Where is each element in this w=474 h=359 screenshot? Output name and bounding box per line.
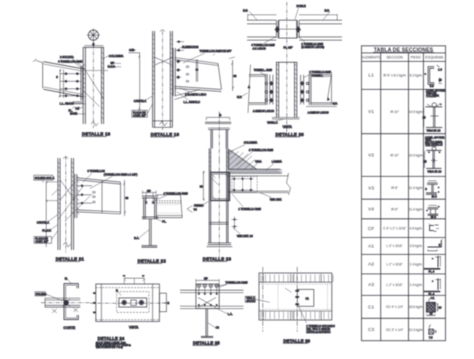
top beam left segment — [247, 20, 276, 40]
svg-text:PL. 3/8": PL. 3/8" — [284, 46, 293, 50]
svg-text:VER DETALLE: VER DETALLE — [425, 143, 443, 147]
boxed label SOLERA — [34, 175, 53, 180]
svg-text:4 TORNILLOS A325: 4 TORNILLOS A325 — [251, 43, 275, 47]
left beam horizontal — [249, 75, 265, 105]
svg-text:N.S.P.: N.S.P. — [108, 65, 116, 69]
column flange hatch — [276, 64, 278, 116]
svg-text:2 SOLDAD.: 2 SOLDAD. — [60, 55, 74, 59]
beam top edge — [44, 62, 83, 69]
top bolts circles — [197, 284, 200, 287]
splice line — [209, 222, 228, 224]
post bottom flange — [201, 336, 213, 337]
svg-text:SOLERA: SOLERA — [36, 292, 47, 296]
top dim line — [248, 14, 338, 16]
outer rect — [259, 273, 332, 320]
svg-text:VIGA IR 10: VIGA IR 10 — [427, 129, 441, 133]
svg-text:14.9 kg/m: 14.9 kg/m — [409, 110, 423, 114]
post below — [149, 219, 151, 246]
svg-text:(A AMBOS LADOS): (A AMBOS LADOS) — [301, 45, 324, 49]
svg-text:C 4" x 2" x 3/16": C 4" x 2" x 3/16" — [383, 227, 406, 231]
svg-text:A AMBOS LADOS: A AMBOS LADOS — [253, 109, 274, 113]
svg-text:11.4 kg/m: 11.4 kg/m — [409, 186, 423, 190]
svg-text:VIGA IR 10: VIGA IR 10 — [427, 169, 441, 173]
svg-text:DOBLE: DOBLE — [297, 4, 306, 8]
svg-text:COLUMNA: COLUMNA — [109, 54, 124, 58]
svg-text:DETALLE 20: DETALLE 20 — [276, 132, 305, 137]
beam bottom edge — [175, 86, 222, 91]
svg-text:10: 10 — [438, 306, 442, 310]
svg-text:CARTELA: CARTELA — [37, 221, 50, 225]
svg-text:L 3" x 3/16": L 3" x 3/16" — [387, 244, 403, 248]
svg-text:PLACA: PLACA — [42, 229, 51, 233]
beam bottom edge — [44, 89, 83, 97]
right end dim — [232, 60, 234, 91]
beam right end cut — [218, 64, 222, 90]
bottom band — [259, 310, 332, 312]
inner dashed rect — [117, 292, 149, 313]
band sub-rect separators — [263, 274, 321, 320]
svg-text:DETALLE 22: DETALLE 22 — [138, 258, 167, 263]
left dim — [128, 53, 140, 110]
svg-text:CF: CF — [368, 226, 374, 232]
V3 I-beam sketch — [425, 181, 439, 199]
svg-text:V4: V4 — [194, 208, 198, 212]
svg-text:30: 30 — [200, 185, 203, 189]
post below — [206, 309, 208, 337]
svg-text:C3: C3 — [368, 327, 374, 333]
bottom note with leader — [299, 306, 307, 323]
vertical gridlines — [263, 267, 297, 332]
right end plate — [309, 74, 311, 105]
bolt centerline crosses — [232, 177, 254, 192]
beam under deck — [228, 176, 288, 193]
dashed box around bolts — [232, 177, 257, 193]
svg-text:OC 3" x 1/4": OC 3" x 1/4" — [386, 328, 404, 332]
svg-text:DETALLE 19: DETALLE 19 — [151, 132, 180, 137]
svg-text:8.2 kg/m: 8.2 kg/m — [410, 73, 423, 77]
gusset lines below beam — [175, 90, 201, 100]
splice bolts dark — [275, 26, 301, 33]
inner horizontal dashed lines — [96, 288, 160, 320]
svg-text:1 TORNILLO A325: 1 TORNILLO A325 — [309, 70, 331, 74]
svg-text:TORNILLOS A325: TORNILLOS A325 — [225, 280, 248, 284]
bottom plate — [73, 102, 84, 104]
beam to right top flange dashed — [156, 201, 181, 203]
grid bubble compass circle — [88, 30, 98, 40]
column top break — [160, 30, 165, 32]
svg-text:DETALLE 18: DETALLE 18 — [82, 132, 111, 137]
svg-text:C1: C1 — [431, 296, 435, 300]
svg-text:VARILLA: VARILLA — [267, 121, 278, 125]
inner dotted verticals — [278, 284, 328, 309]
column bottom break — [91, 121, 98, 126]
svg-text:PESO: PESO — [411, 56, 421, 60]
beam top edge — [175, 58, 219, 66]
beam body lines — [156, 195, 182, 218]
svg-text:IR 6" x 8.2 kg/m: IR 6" x 8.2 kg/m — [383, 73, 406, 77]
svg-text:V4: V4 — [368, 207, 374, 213]
column flanges — [58, 158, 74, 250]
column centerline dashed — [92, 44, 94, 128]
svg-text:4.6 kg/m: 4.6 kg/m — [410, 227, 423, 231]
svg-text:15: 15 — [439, 78, 443, 82]
beam top inner edge — [44, 64, 83, 71]
channel at column (section) — [211, 172, 230, 200]
wavy dim — [73, 107, 83, 109]
beam inner stiffener vertical — [101, 180, 103, 213]
A3 angle sketch — [424, 278, 441, 296]
svg-text:COLUMNA: COLUMNA — [426, 93, 439, 97]
left cleat bolts dark diamonds — [269, 81, 273, 103]
right cleat bolts dark diamonds — [300, 81, 304, 103]
svg-text:VER DET. 24: VER DET. 24 — [237, 234, 253, 238]
svg-text:N.P.: N.P. — [325, 8, 330, 12]
table row labels column ELEMENTO — [368, 73, 375, 334]
svg-text:2 TORNILLOS A325: 2 TORNILLOS A325 — [249, 148, 274, 152]
A2 angle sketch — [424, 256, 441, 273]
V4 I-beam sketch — [426, 205, 440, 219]
bolts in beam — [233, 178, 252, 191]
svg-text:DETALLE ADJUNTO: DETALLE ADJUNTO — [306, 330, 330, 334]
ESQUEMA sketches — [423, 65, 446, 339]
leader to column — [52, 190, 58, 196]
C1 hatched square sketch — [426, 296, 442, 316]
column centerline — [162, 31, 164, 130]
top dim line — [143, 192, 157, 194]
left end plate — [265, 74, 267, 105]
svg-text:18.6 kg/m: 18.6 kg/m — [409, 305, 423, 309]
svg-text:60: 60 — [233, 74, 236, 78]
svg-text:PL.4: PL.4 — [429, 269, 435, 273]
mid stiffener vertical — [196, 60, 197, 82]
bolt circles with filled diamonds — [122, 300, 126, 304]
C3 box sketch — [429, 325, 437, 340]
svg-text:IR 8: IR 8 — [432, 194, 438, 198]
table outer frame — [362, 46, 446, 341]
svg-text:3.5: 3.5 — [76, 106, 80, 110]
svg-text:2.4 kg/m: 2.4 kg/m — [410, 262, 423, 266]
column base plate — [272, 118, 300, 120]
svg-text:25: 25 — [423, 116, 427, 120]
svg-text:10.3 kg/m: 10.3 kg/m — [409, 328, 423, 332]
svg-text:TORNILL.: TORNILL. — [312, 74, 324, 78]
post base — [142, 246, 158, 248]
left cleat — [270, 75, 273, 105]
beam top edge — [77, 178, 121, 184]
column flanges — [276, 62, 296, 117]
inner plate rect — [297, 289, 314, 306]
gusset triangle fill — [229, 150, 259, 171]
svg-text:NP: NP — [204, 276, 208, 280]
svg-text:B: B — [168, 301, 170, 305]
table grid horizontal lines — [362, 53, 446, 318]
left dimension line — [59, 70, 61, 98]
svg-text:DETALLE 24: DETALLE 24 — [98, 336, 125, 341]
stub centerline — [218, 112, 220, 160]
beam horizontal lines — [180, 290, 244, 308]
table PESO column texts — [409, 73, 423, 332]
cap plate — [142, 196, 158, 198]
top dim line — [206, 116, 229, 118]
svg-text:E: E — [116, 288, 118, 292]
column centerline — [65, 156, 67, 253]
top dimension — [124, 277, 144, 279]
beam through (plan) — [45, 298, 80, 307]
inner flange verticals — [101, 284, 152, 322]
svg-text:N.P.: N.P. — [243, 8, 248, 12]
CF channel sketch — [429, 224, 439, 232]
table SECCION column texts — [383, 73, 406, 332]
left dim line — [45, 182, 47, 248]
column below — [209, 148, 228, 242]
svg-text:NP: NP — [147, 189, 151, 193]
plate rect — [119, 298, 147, 307]
svg-text:VER DET.: VER DET. — [270, 198, 282, 202]
svg-text:ESQUEMA: ESQUEMA — [425, 56, 444, 60]
bolt blob center — [64, 300, 69, 305]
svg-text:A AMBOS LADOS: A AMBOS LADOS — [308, 111, 329, 115]
svg-text:VISTA: VISTA — [129, 326, 139, 330]
beam end cut — [181, 195, 183, 218]
svg-text:COLUMNA: COLUMNA — [244, 141, 258, 145]
deck strip fill — [228, 169, 282, 173]
table title — [373, 48, 434, 54]
beam hatch dots — [158, 205, 180, 214]
svg-text:DETALLE 21: DETALLE 21 — [56, 256, 85, 261]
svg-text:1 TORNILLO A325: 1 TORNILLO A325 — [238, 207, 261, 211]
svg-text:L.A.: L.A. — [228, 312, 233, 316]
svg-text:1.9: 1.9 — [438, 68, 442, 72]
X braces inside block — [198, 298, 216, 308]
top beam right segment — [299, 20, 342, 40]
V1 I-beam sketch with notes — [423, 89, 446, 133]
outer rect — [96, 284, 160, 322]
beam bottom edge — [77, 210, 121, 214]
beam right break — [287, 173, 291, 195]
column flanges — [153, 31, 173, 127]
svg-text:11.4 kg/m: 11.4 kg/m — [409, 207, 423, 211]
svg-text:4.50: 4.50 — [129, 48, 135, 52]
svg-text:A1: A1 — [368, 244, 374, 250]
svg-text:B.A.: B.A. — [134, 236, 139, 240]
svg-text:PL.: PL. — [69, 109, 73, 113]
svg-text:N.P.: N.P. — [333, 102, 338, 106]
X leader marks — [52, 309, 57, 313]
centerline dash-dot — [90, 302, 169, 304]
column cap top — [276, 61, 297, 63]
column bottom band with break — [153, 121, 173, 128]
right cleat — [301, 75, 304, 105]
svg-text:SECCION: SECCION — [386, 56, 403, 60]
svg-text:TABLA DE SECCIONES: TABLA DE SECCIONES — [374, 48, 434, 54]
bolts vertical stems — [146, 193, 153, 204]
end plate — [75, 174, 77, 218]
svg-text:C1: C1 — [306, 297, 310, 301]
svg-text:OC 4" x 1/4": OC 4" x 1/4" — [386, 305, 404, 309]
svg-text:TORNILL. A325: TORNILL. A325 — [254, 68, 273, 72]
svg-text:IR 8": IR 8" — [391, 186, 398, 190]
svg-text:A3: A3 — [368, 282, 374, 288]
beam left end cut — [42, 62, 44, 89]
channel corner hatches — [212, 174, 229, 200]
svg-text:2.4 kg/m: 2.4 kg/m — [410, 283, 423, 287]
svg-text:7.5: 7.5 — [429, 335, 433, 339]
boxed label VIGA — [245, 296, 255, 302]
svg-text:L1: L1 — [368, 73, 374, 79]
svg-text:M.: M. — [65, 277, 68, 281]
base plates — [207, 243, 233, 247]
right mid bolts detail — [232, 217, 238, 230]
beam right end cut — [120, 182, 122, 214]
top dim — [196, 279, 219, 281]
column hatch ticks — [58, 162, 60, 214]
svg-text:CARTELA: CARTELA — [134, 99, 147, 103]
bolt squares second col — [186, 66, 188, 82]
svg-text:14.9 kg/m: 14.9 kg/m — [409, 153, 423, 157]
V2 I-beam sketch with notes — [424, 135, 445, 173]
column block sides — [144, 198, 157, 219]
svg-text:L 2" x 3/16": L 2" x 3/16" — [387, 283, 403, 287]
left plate bolt circles — [265, 82, 267, 84]
svg-text:L.L. ANGULO: L.L. ANGULO — [184, 100, 200, 104]
boxed label PLACA BASE — [132, 110, 148, 117]
left dim — [202, 171, 204, 201]
svg-text:C1: C1 — [368, 304, 374, 310]
svg-text:L.L. ABAJO: L.L. ABAJO — [60, 102, 74, 106]
end plate — [173, 48, 175, 96]
bolt plate edge vertical — [63, 70, 65, 99]
table grid vertical lines — [381, 53, 424, 341]
svg-text:C3: C3 — [216, 326, 220, 330]
boxed label SOLERA — [35, 292, 45, 296]
svg-text:ELEMENTO: ELEMENTO — [361, 56, 381, 60]
column flange hatch ticks — [101, 52, 103, 119]
bolts in block — [145, 201, 155, 204]
bolt squares — [93, 192, 95, 203]
svg-text:NP: NP — [111, 61, 115, 65]
bolt row lines — [78, 186, 92, 203]
svg-text:V3: V3 — [368, 185, 374, 191]
bolt marks on gridline — [296, 290, 299, 306]
leader into plate — [118, 292, 122, 296]
svg-text:CORTE: CORTE — [63, 326, 76, 330]
svg-text:APOYO: APOYO — [246, 299, 255, 303]
svg-text:4 TORNILLOS A325: 4 TORNILLOS A325 — [58, 59, 83, 63]
column hatch ticks — [153, 34, 155, 95]
svg-text:PL.: PL. — [162, 219, 166, 223]
leader diagonals crossing joint — [83, 68, 103, 107]
svg-text:6 TORNILLOS: 6 TORNILLOS — [87, 169, 105, 173]
gusset diagonal with hatch — [229, 150, 259, 171]
svg-text:5.8: 5.8 — [430, 84, 434, 88]
svg-text:4 TORNILLOS A325: 4 TORNILLOS A325 — [164, 192, 189, 196]
svg-text:PERNO: PERNO — [194, 204, 204, 208]
right plate bolt circles — [306, 82, 308, 84]
bolt row lines — [60, 74, 81, 96]
right tab — [159, 293, 166, 312]
inner dotted horizontals — [259, 284, 332, 309]
right arrow — [162, 302, 166, 304]
svg-text:3.6 kg/m: 3.6 kg/m — [410, 244, 423, 248]
svg-text:25: 25 — [424, 160, 428, 164]
end plate — [81, 66, 83, 101]
column centerline — [218, 160, 220, 259]
svg-text:10: 10 — [430, 312, 434, 316]
bolt column lines — [176, 42, 184, 77]
splice block — [279, 20, 297, 38]
bolts diamonds — [176, 40, 180, 79]
bolts — [80, 184, 83, 204]
svg-text:CONT. 3/8": CONT. 3/8" — [35, 240, 48, 244]
svg-text:N.P.: N.P. — [237, 95, 242, 99]
svg-text:V1: V1 — [368, 109, 374, 115]
column bottom break — [63, 242, 70, 247]
block mid line — [279, 28, 297, 30]
center dashed line — [286, 2, 288, 133]
svg-text:IR 10": IR 10" — [390, 110, 399, 114]
svg-text:IR 8: IR 8 — [431, 215, 437, 219]
splice end plates — [276, 20, 299, 38]
column top break — [63, 157, 68, 159]
column flange hatch near joint — [209, 152, 228, 172]
column flanges — [83, 47, 103, 124]
svg-text:DETALLE 26: DETALLE 26 — [283, 338, 310, 343]
right tilted dim — [327, 72, 332, 100]
svg-text:DETALLE 23: DETALLE 23 — [203, 256, 232, 261]
block bottom plate — [142, 217, 158, 219]
table column headers — [361, 56, 444, 60]
connection block — [196, 284, 219, 309]
center square — [131, 300, 137, 305]
bolt stems — [199, 287, 217, 294]
svg-text:SOLERA SUJ. 1: SOLERA SUJ. 1 — [35, 176, 55, 180]
svg-text:40: 40 — [125, 196, 128, 200]
svg-text:L 2" x 3/16": L 2" x 3/16" — [387, 262, 403, 266]
svg-text:A 3 LADOS: A 3 LADOS — [253, 46, 267, 50]
left ticks — [93, 292, 96, 313]
svg-text:ALINEACION: ALINEACION — [182, 45, 198, 49]
svg-text:CONT. 3/8": CONT. 3/8" — [133, 114, 146, 118]
right beam horizontal — [311, 75, 332, 105]
svg-text:VIGA: VIGA — [255, 159, 262, 163]
bubble stem — [92, 42, 94, 48]
bolts (diamonds) — [64, 72, 79, 97]
svg-text:TORNILLOS A325 DE 3/4": TORNILLOS A325 DE 3/4" — [200, 49, 232, 53]
svg-text:DETALLE 25: DETALLE 25 — [193, 340, 220, 345]
svg-text:IR 8": IR 8" — [391, 207, 398, 211]
channel C-shape: spine left, opens right — [64, 284, 78, 320]
svg-text:(TORNILLOS A325 x 1 1/2"): (TORNILLOS A325 x 1 1/2") — [104, 173, 138, 177]
svg-text:A2: A2 — [368, 262, 374, 268]
L1 channel sketch — [424, 65, 442, 88]
svg-text:V2: V2 — [368, 153, 374, 159]
beam bottom inner edge — [44, 87, 83, 95]
svg-text:VER PLANOS E-2 Y E-3): VER PLANOS E-2 Y E-3) — [96, 346, 123, 349]
svg-text:IR 10": IR 10" — [390, 153, 399, 157]
centerline dash-dot — [41, 302, 90, 304]
svg-text:VISTA: VISTA — [283, 125, 293, 129]
svg-text:LAMINA: LAMINA — [272, 159, 282, 163]
right leader V — [187, 206, 193, 213]
mid bolt dots — [198, 293, 218, 306]
leader to plate — [285, 288, 292, 293]
left tilted dim — [248, 65, 251, 114]
A1 angle sketch — [428, 239, 443, 251]
joint diagonals — [60, 180, 75, 200]
beam end dim — [124, 180, 126, 216]
top stub body — [211, 130, 228, 149]
column cap — [83, 46, 104, 48]
